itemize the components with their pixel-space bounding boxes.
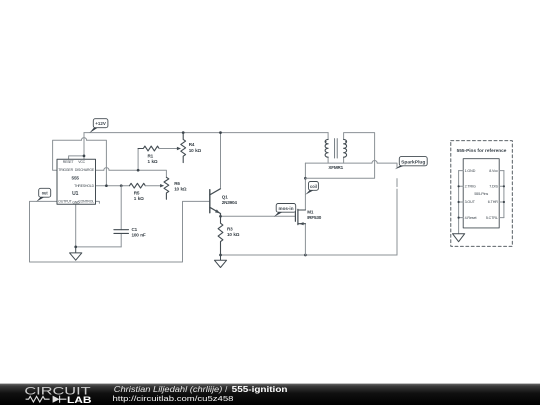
wire spark gap lower electrode: [396, 179, 398, 255]
svg-text:R3: R3: [227, 227, 233, 232]
svg-text:mos-in: mos-in: [279, 206, 294, 211]
svg-text:RESET: RESET: [63, 160, 74, 164]
svg-text:555-ignition: 555-ignition: [232, 385, 288, 394]
resistor R1: [138, 146, 181, 151]
net flag coil: [305, 182, 318, 195]
label R1 value: [148, 153, 158, 164]
svg-text:TRIGGER: TRIGGER: [58, 168, 73, 172]
svg-text:+12V: +12V: [95, 121, 106, 126]
wire bottom ground rail: [221, 254, 398, 256]
svg-text:6.THR: 6.THR: [488, 200, 498, 204]
svg-text:IRF530: IRF530: [307, 215, 322, 220]
wire +12V rail: [84, 132, 328, 134]
svg-text:5.CTRL: 5.CTRL: [486, 216, 498, 220]
net flag out: [36, 188, 50, 201]
wire R1 left lead drop to discharge wire: [137, 149, 139, 171]
svg-text:555: 555: [72, 176, 80, 181]
net flag mos-in: [274, 204, 296, 217]
net flag +12V: [89, 119, 108, 133]
555-Pins reference box (dashed): [451, 141, 513, 247]
svg-text:2N3904: 2N3904: [222, 200, 238, 205]
junction R4/rail: [182, 131, 185, 134]
label M1 value: [307, 209, 322, 220]
junction coil/secondary-top: [304, 177, 307, 180]
svg-text:VCC: VCC: [78, 160, 85, 164]
wire VCC drop from rail to U1: [83, 133, 85, 160]
junction gnd/C1 wire: [74, 246, 77, 249]
CircuitLab logo resistor-diode glyph: [26, 396, 67, 403]
svg-text:M1: M1: [307, 209, 314, 214]
op-amp U1 555 timer box: [57, 159, 96, 204]
resistor R3: [218, 216, 223, 255]
wire transformer bottoms to SparkPlug (with hop): [305, 162, 397, 164]
ground under U1: [70, 247, 82, 260]
svg-text:XFMR1: XFMR1: [328, 165, 343, 170]
wire TRIGGER loop to THRESHOLD (with hop over VCC line): [53, 140, 107, 186]
svg-text:http://circuitlab.com/cu5z458: http://circuitlab.com/cu5z458: [113, 394, 234, 403]
junction R1/discharge: [137, 169, 140, 172]
svg-text:100 nF: 100 nF: [132, 232, 146, 237]
potentiometer R6: [164, 177, 169, 199]
wire hop over trigger vertical: [104, 168, 109, 171]
label R6 value: [174, 181, 187, 192]
junction ref left bus dots: [458, 185, 460, 187]
junction C1/threshold: [120, 184, 123, 187]
svg-text:R4: R4: [189, 142, 195, 147]
transistor Q1 2N3904: [210, 189, 221, 217]
op-amp 555-Pins reference IC body: [463, 159, 499, 228]
junction M1 source/bottom rail: [304, 254, 307, 257]
svg-text:LAB: LAB: [67, 395, 92, 405]
wire C1 top lead: [120, 186, 122, 230]
wire coil node drop to M1 drain: [304, 163, 306, 210]
wire C1 bottom lead: [120, 233, 122, 247]
wire OUTPUT loop to Q1 base: [30, 201, 210, 262]
net flag SparkPlug: [395, 157, 427, 170]
svg-text:8.Vcc: 8.Vcc: [489, 169, 498, 173]
wire GND pin of U1: [75, 204, 77, 247]
svg-text:OUTPUT: OUTPUT: [58, 199, 71, 203]
wire Q1 collector to rail: [220, 133, 222, 188]
svg-text:Christian Liljedahl (chrliije): Christian Liljedahl (chrliije): [114, 385, 223, 394]
svg-text:1 kΩ: 1 kΩ: [134, 196, 144, 201]
pin labels of reference IC: [465, 169, 499, 220]
wire Q1 emitter to M1 gate: [221, 215, 296, 217]
junction R3 bottom: [219, 254, 222, 257]
transistor M1 IRF530 mosfet: [295, 209, 305, 225]
svg-text:4.Reset: 4.Reset: [465, 216, 477, 220]
wire ref right pin stubs: [499, 171, 504, 218]
wire M1 source drop to bottom rail: [304, 224, 306, 255]
svg-text:SparkPlug: SparkPlug: [401, 160, 426, 165]
junction emitter node: [219, 215, 222, 218]
ground under R3: [214, 255, 226, 268]
svg-text:10 kΩ: 10 kΩ: [227, 232, 240, 237]
wire ref right bus: [503, 171, 505, 218]
svg-text:3.OUT: 3.OUT: [465, 200, 476, 204]
svg-text:R5: R5: [134, 190, 140, 195]
ground in reference box: [453, 234, 465, 242]
wire hop over VCC vertical: [81, 138, 86, 141]
label C1 value: [132, 227, 146, 238]
resistor R5: [130, 183, 165, 188]
svg-text:THRESHOLD: THRESHOLD: [74, 184, 95, 188]
svg-text:R1: R1: [148, 153, 154, 158]
svg-text:R6: R6: [174, 181, 180, 186]
wire secondary bottom lead: [343, 157, 345, 163]
wire RESET to VCC link: [69, 156, 84, 159]
svg-text:1 kΩ: 1 kΩ: [148, 159, 158, 164]
potentiometer R4: [181, 133, 186, 163]
svg-text:555-Pins: 555-Pins: [474, 192, 488, 196]
label R4 value: [189, 142, 202, 153]
wire primary bottom lead: [327, 157, 329, 163]
junction ref right bus dots: [503, 185, 505, 187]
wire hop over secondary-top vertical: [372, 160, 377, 163]
wire spark gap upper stub: [396, 163, 398, 168]
wire ref left bus: [458, 171, 460, 234]
wire ref left pin stubs: [459, 171, 464, 218]
wire CONTROL stub: [96, 201, 100, 203]
label R3 value: [227, 227, 240, 238]
wire primary top lead: [327, 133, 329, 140]
junction collector/rail: [219, 131, 222, 134]
transformer XFMR1: [325, 139, 347, 158]
svg-text:Q1: Q1: [222, 195, 228, 200]
svg-text:C1: C1: [132, 227, 138, 232]
wire secondary top loop to coil node: [305, 133, 374, 179]
svg-text:DISCHARGE: DISCHARGE: [75, 168, 95, 172]
wire THRESHOLD to R5: [96, 185, 130, 187]
svg-text:coil: coil: [310, 184, 317, 189]
label R5 value: [134, 190, 144, 201]
svg-text:7.DIS: 7.DIS: [489, 185, 498, 189]
capacitor C1: [114, 230, 129, 234]
svg-text:555-Pins for reference: 555-Pins for reference: [457, 148, 507, 154]
svg-text:10 kΩ: 10 kΩ: [174, 187, 187, 192]
svg-text:U1: U1: [72, 191, 78, 197]
svg-text:2.TRIG: 2.TRIG: [465, 185, 476, 189]
svg-text:10 kΩ: 10 kΩ: [189, 148, 202, 153]
label Q1 value: [222, 195, 238, 206]
wire gnd to C1 bottom: [76, 246, 122, 248]
svg-text:1.GND: 1.GND: [465, 169, 476, 173]
junction trigger/threshold: [105, 184, 108, 187]
svg-text:CONTROL: CONTROL: [78, 199, 94, 203]
svg-text:out: out: [42, 191, 48, 196]
junction reset-vcc: [83, 155, 86, 158]
bottom credit bar: [0, 384, 540, 405]
wire DISCHARGE to R6 top (with hop over trigger loop): [96, 170, 167, 177]
